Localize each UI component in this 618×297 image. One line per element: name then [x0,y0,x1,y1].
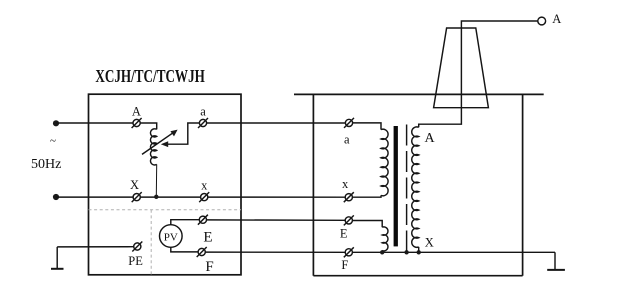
winding S (secondary) [412,127,419,247]
node L input [53,120,59,126]
variac arrow (adjustable) [142,130,178,155]
wire F bus to ground [352,251,555,253]
ground left [51,247,64,269]
svg-text:A: A [425,131,436,146]
terminal a [198,118,208,128]
terminal F (tank) [344,247,354,257]
dashed divider vertical [150,210,152,275]
terminal a (tank) [344,118,354,128]
winding P2 (E-F) [382,227,388,251]
terminal E [198,215,208,225]
winding P1 (a-x) [381,129,388,196]
svg-text:F: F [341,258,348,272]
wire winding P2 to bus [381,251,383,253]
core bar [394,126,398,246]
svg-text:A: A [132,105,141,119]
wire L to A [56,122,133,124]
terminal F [197,247,207,257]
wire F to right box [205,251,345,253]
terminal E (tank) [344,215,354,225]
wire E to winding P2 [352,221,382,228]
wire X to x [140,196,200,198]
wire PE [57,246,134,248]
terminal X [132,192,142,202]
svg-text:PV: PV [164,231,178,243]
svg-text:~: ~ [50,135,56,147]
terminal PE [132,242,142,252]
svg-text:E: E [340,227,348,241]
wire PV to E [171,220,200,225]
svg-text:a: a [344,133,350,147]
wire x to right box [208,196,345,198]
wire A to variac top [140,123,157,129]
wire variac bottom to X line [155,164,157,196]
dashed divider horizontal [89,209,242,211]
voltmeter PV [160,225,183,248]
svg-text:PE: PE [128,254,143,268]
tank box (transformer) [294,94,544,275]
wire a to winding [353,123,381,130]
variac T1 winding [150,129,156,165]
svg-text:x: x [201,179,208,193]
wire secondary top to bushing [419,21,538,127]
wire a to right box [207,122,346,124]
wire E to right box [207,219,346,221]
terminal x [199,192,209,202]
node P2 bus [380,250,384,254]
wire N to X [56,196,133,198]
svg-text:50Hz: 50Hz [31,157,61,172]
terminal A (HV output) [538,17,546,25]
core dashed line [406,125,408,253]
svg-text:X: X [130,178,139,192]
svg-text:A: A [552,12,561,26]
svg-text:F: F [205,259,213,275]
svg-text:XCJH/TC/TCWJH: XCJH/TC/TCWJH [95,67,204,86]
node secondary bus [417,250,421,254]
wire secondary bottom to bus [418,247,420,252]
node N input [53,194,59,200]
node core bus [404,250,408,254]
bushing (insulator) [434,28,489,108]
wire PV to F [171,247,198,252]
terminal x (tank) [344,192,354,202]
svg-text:E: E [203,230,212,246]
wiper arrowhead [161,141,168,147]
wire x to winding [352,195,381,197]
svg-text:X: X [425,235,434,249]
svg-text:a: a [200,105,206,119]
wiper wire from a [167,123,200,144]
node variac-X junction [154,195,158,199]
svg-text:x: x [342,177,349,191]
box XCJH/TC/TCWJH (control box) [89,94,242,275]
ground right [547,252,565,270]
terminal A [132,118,142,128]
